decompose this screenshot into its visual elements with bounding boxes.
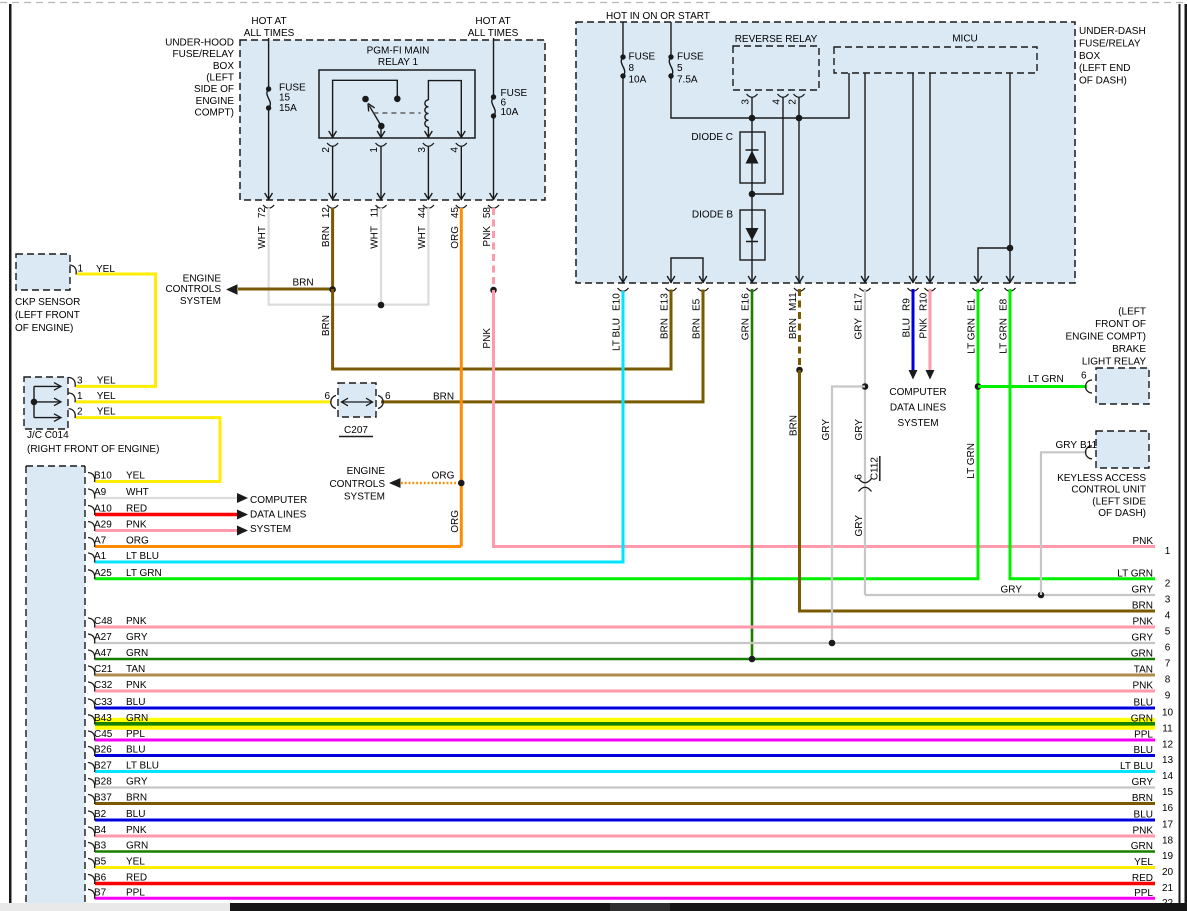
relay coil winding [425,100,429,127]
PGM-FI main relay 1 outline [319,70,475,138]
wire fuse 8 to box exit E10 [622,76,624,283]
reverse relay box [733,46,819,90]
relay switch arm [369,106,381,126]
svg-text:A7: A7 [94,536,107,547]
svg-text:PNK: PNK [1132,536,1153,547]
svg-text:DIODE B: DIODE B [692,210,733,221]
junction row 3 / keyless branch [1038,592,1045,599]
svg-text:17: 17 [1162,820,1174,831]
svg-text:YEL: YEL [96,264,115,275]
arrow to engine controls system (top) [226,284,238,295]
reverse relay pin 3 arc [747,94,758,97]
ECM pin B10 [88,473,95,483]
svg-text:72: 72 [257,207,268,219]
CKP sensor pin 1 arc [70,265,77,275]
svg-text:8: 8 [629,63,635,74]
svg-text:MICU: MICU [952,34,978,45]
svg-text:8: 8 [1165,675,1171,686]
arrow computer data lines A29 [237,526,248,536]
ECM pin A27 [88,634,95,644]
svg-text:GRN: GRN [126,648,148,659]
wire BLU R9 [912,289,915,371]
diode B box [740,210,765,260]
svg-text:C112: C112 [870,457,881,481]
svg-text:45: 45 [450,207,461,219]
svg-text:FUSE: FUSE [677,51,704,62]
wire row 12 PPL [95,739,1155,742]
svg-text:LT BLU: LT BLU [1120,761,1153,772]
svg-text:R9: R9 [902,298,913,311]
reverse relay pin 4 arc [778,94,789,97]
wire fuse 6 to box exit 58 [493,116,495,200]
svg-text:UNDER-DASH: UNDER-DASH [1079,26,1146,37]
ECM pin A9 [88,489,95,499]
relay actuation dashed link [373,112,420,114]
svg-text:PNK: PNK [1132,826,1153,837]
ECM pin C45 [88,731,95,741]
svg-text:DATA LINES: DATA LINES [250,510,307,521]
svg-text:4: 4 [1165,611,1171,622]
ECM pin B28 [88,779,95,789]
svg-text:1: 1 [369,147,380,153]
svg-text:2: 2 [321,147,332,153]
svg-text:PNK: PNK [919,318,930,339]
svg-text:RELAY 1: RELAY 1 [378,57,419,68]
C112 in-line connector [859,479,872,483]
svg-text:E16: E16 [741,293,752,311]
wire diode C to diode B [751,183,753,210]
ECM pin B4 [88,827,95,837]
svg-text:58: 58 [482,207,493,219]
svg-text:11: 11 [1162,723,1173,734]
svg-text:4: 4 [772,99,783,105]
svg-text:13: 13 [1162,755,1174,766]
relay fixed contact node [394,96,401,103]
svg-text:A9: A9 [94,487,107,498]
under-hood fuse/relay box [240,40,545,200]
svg-text:7.5A: 7.5A [677,75,698,86]
svg-text:BRN: BRN [433,392,454,403]
svg-text:(LEFT: (LEFT [1118,307,1146,318]
junction PNK 58 [490,287,497,294]
svg-text:LT GRN: LT GRN [966,443,977,479]
relay pin exit at x=428.4 [425,131,433,137]
wire PNK R10 [929,289,932,371]
wire YEL J/C C014 pin 2 to ECM B10 [76,418,220,482]
wire GRY E17 branch to row 6 [832,387,865,644]
arrow to engine controls system (ORG) [389,478,401,488]
wire ORG to engine controls arrow [401,482,461,484]
svg-text:COMPUTER: COMPUTER [250,495,307,506]
wire row 13 BLU [95,754,1155,757]
svg-text:REVERSE RELAY: REVERSE RELAY [735,34,818,45]
ECM pin C33 [88,699,95,709]
svg-text:ALL TIMES: ALL TIMES [244,28,295,39]
wire BRN 12 from exit [331,208,334,290]
svg-text:ORG: ORG [126,536,149,547]
fuse 8 10A [620,54,625,59]
svg-text:ENGINE: ENGINE [196,96,235,107]
svg-text:GRY: GRY [1132,585,1154,596]
wire MICU to box exit R9 [912,73,914,283]
svg-text:BLU: BLU [1134,810,1153,821]
svg-text:LT GRN: LT GRN [1117,568,1153,579]
svg-text:HOT AT: HOT AT [251,16,286,27]
ECM connector box right edge [84,466,86,903]
svg-text:GRN: GRN [1131,649,1153,660]
under-hood box exit at x=428.4 [425,193,433,199]
wire RED ECM A10 to computer data lines [95,513,237,516]
wire YEL J/C C014 pin 1 to C207 [76,400,331,403]
wire PNK 58 dashed segment [492,208,495,290]
under-dash box exit R9 [909,276,917,282]
ECM pin C48 [88,618,95,628]
svg-text:1: 1 [1165,546,1171,557]
svg-text:B6: B6 [94,873,107,884]
relay coil branch [428,81,461,138]
wire ORG to ECM A7 [95,545,461,548]
svg-text:TAN: TAN [1134,665,1153,676]
J/C C014 connector box [24,377,68,429]
ECM connector box top edge [26,465,85,467]
wire BRN M11 dashed segment [798,289,801,370]
svg-text:10A: 10A [501,107,519,118]
ECM pin A29 [88,522,95,532]
svg-text:C207: C207 [344,425,368,436]
C207 internal double arrow [342,401,373,403]
relay pin exit at x=381 [377,131,385,137]
under-hood box exit at x=268.6 [265,193,273,199]
svg-text:PNK: PNK [1132,681,1153,692]
ECM pin B5 [88,859,95,869]
svg-text:GRN: GRN [126,713,148,724]
svg-text:LT BLU: LT BLU [612,318,623,351]
junction E8/E1 branch [1007,245,1014,252]
svg-text:PNK: PNK [1132,617,1153,628]
svg-text:6: 6 [324,391,330,402]
ECM pin C32 [88,682,95,692]
wire fuse 5 to bus [671,73,849,118]
svg-text:C45: C45 [94,729,113,740]
ECM pin B37 [88,795,95,805]
wire GRN E16 to row 7 [751,289,754,659]
svg-text:SYSTEM: SYSTEM [897,418,938,429]
svg-text:FRONT OF: FRONT OF [1095,319,1146,330]
junction fuse5 bus / reverse relay pin 2 [796,115,803,122]
svg-text:12: 12 [1162,740,1174,751]
svg-text:B43: B43 [94,713,112,724]
junction ORG [458,480,465,487]
svg-text:ORG: ORG [432,471,455,482]
svg-text:PNK: PNK [126,616,147,627]
ECM pin B26 [88,747,95,757]
ECM pin B27 [88,763,95,773]
ECM pin B43 [88,715,95,725]
svg-text:10: 10 [1162,708,1174,719]
svg-text:ORG: ORG [450,226,461,249]
svg-text:LT GRN: LT GRN [126,568,162,579]
svg-text:GRY: GRY [1132,777,1154,788]
svg-text:B7: B7 [94,887,107,898]
bottom bar segment [610,903,670,911]
svg-text:A29: A29 [94,520,112,531]
under-dash box exit E10 [619,276,627,282]
fuse 15 15A [266,86,271,91]
svg-text:C48: C48 [94,616,113,627]
reverse relay pin 2 arc [794,94,805,97]
svg-text:GRY: GRY [126,632,148,643]
wire PNK 58 to row 1 [494,290,1156,547]
wire row 14 LT BLU [95,770,1155,773]
svg-text:20: 20 [1162,867,1174,878]
wire row 11 GRN [95,722,1155,726]
svg-text:9: 9 [1165,691,1171,702]
svg-text:BOX: BOX [213,61,234,72]
junction fuse5 bus / reverse relay pin 3 [749,115,756,122]
wire BRN 12 to E13 [333,289,671,369]
svg-text:LT GRN: LT GRN [1028,374,1064,385]
svg-text:A10: A10 [94,504,112,515]
wire YEL CKP sensor pin 1 to J/C C014 pin 3 [76,274,156,386]
svg-text:12: 12 [321,207,332,219]
J/C C014 internal junction [31,399,38,406]
ECM pin B7 [88,889,95,899]
svg-text:C33: C33 [94,697,113,708]
ECM pin B6 [88,875,95,885]
under-dash box exit E16 [748,276,756,282]
svg-text:YEL: YEL [97,391,116,402]
wire GRY E17 [864,289,866,595]
page right border inner [1179,4,1181,903]
svg-text:1: 1 [78,264,84,275]
brake light relay box [1096,368,1149,404]
svg-text:HOT IN ON OR START: HOT IN ON OR START [606,11,710,22]
wire reverse relay pin 3 to diode C [751,98,753,133]
under-dash fuse/relay box [576,22,1075,283]
svg-text:YEL: YEL [1134,857,1153,868]
svg-text:KEYLESS ACCESS: KEYLESS ACCESS [1057,473,1146,484]
arrow R10 to computer data lines system [926,370,935,380]
svg-text:GRY: GRY [854,515,865,537]
wire row 16 BRN [95,802,1155,805]
ECM connector box fill [26,466,85,903]
svg-text:PNK: PNK [126,680,147,691]
svg-text:LT BLU: LT BLU [126,761,159,772]
svg-text:RED: RED [126,873,147,884]
svg-text:PNK: PNK [126,520,147,531]
wire MICU to box exit R10 [929,73,931,283]
wire row 20 YEL [95,866,1155,869]
junction BRN 12 [329,286,336,293]
svg-text:E13: E13 [660,293,671,311]
wire fuse 15 to box exit 72 [268,108,270,200]
svg-text:GRY: GRY [854,419,865,441]
svg-text:15: 15 [279,93,291,104]
wire GRY keyless access B11 [1041,452,1087,595]
svg-text:GRY: GRY [126,777,148,788]
svg-text:B11: B11 [1080,440,1097,451]
svg-text:BRN: BRN [321,226,332,247]
svg-text:A1: A1 [94,551,107,562]
wire LT GRN to brake light relay pin 6 [978,385,1087,388]
fuse 5 7.5A [668,54,673,59]
wire MICU to box exit E8 [1009,73,1011,283]
svg-text:BRN: BRN [293,277,314,288]
svg-text:COMPT): COMPT) [195,108,234,119]
svg-text:(LEFT END: (LEFT END [1079,63,1131,74]
svg-text:6: 6 [385,391,391,402]
svg-text:B26: B26 [94,745,112,756]
svg-text:ENGINE COMPT): ENGINE COMPT) [1065,332,1146,343]
C207 left half-connector [331,396,336,409]
svg-text:ORG: ORG [450,510,461,533]
svg-text:14: 14 [1162,771,1174,782]
svg-text:PNK: PNK [482,226,493,247]
svg-text:DATA LINES: DATA LINES [890,403,947,414]
svg-text:(LEFT SIDE: (LEFT SIDE [1092,496,1146,507]
svg-text:BRN: BRN [788,318,799,339]
wire BRN M11 to row 4 [800,370,1156,611]
svg-text:WHT: WHT [126,487,149,498]
under-dash box exit E13 [667,276,675,282]
svg-text:CONTROL UNIT: CONTROL UNIT [1071,485,1146,496]
svg-text:6: 6 [854,474,865,480]
svg-text:TAN: TAN [126,664,145,675]
diode B symbol [746,228,759,241]
arrow R9 to computer data lines system [909,370,918,380]
svg-text:E1: E1 [967,298,978,311]
diode C wire through [751,132,753,183]
svg-text:B5: B5 [94,857,107,868]
svg-text:3: 3 [77,376,83,387]
svg-text:RED: RED [1132,873,1153,884]
svg-text:R10: R10 [919,292,930,311]
wire GRY E17 to row 3 [865,594,1155,596]
svg-text:YEL: YEL [97,406,116,417]
svg-text:LT BLU: LT BLU [126,551,159,562]
svg-text:YEL: YEL [126,857,145,868]
svg-text:15: 15 [1162,787,1174,798]
svg-text:B2: B2 [94,809,107,820]
wire row 10 BLU [95,707,1155,710]
diode C symbol [746,151,759,164]
svg-text:GRY: GRY [854,318,865,340]
relay switch feed from pin 2 [333,80,398,138]
svg-text:7: 7 [1165,659,1171,670]
wire row 15 GRY [95,786,1155,788]
diode C box [740,132,765,183]
J/C C014 pin arrow y=386.4 [34,385,60,387]
under-hood box exit at x=493.5 [490,193,498,199]
wire BRN to engine controls arrow [238,288,333,291]
wire row 5 PNK [95,626,1155,629]
svg-text:BRAKE: BRAKE [1112,344,1146,355]
svg-text:(RIGHT FRONT OF ENGINE): (RIGHT FRONT OF ENGINE) [27,444,159,455]
junction WHT bus [378,302,385,309]
wire row 18 PNK [95,835,1155,838]
svg-text:BRN: BRN [692,318,703,339]
brake light relay pin 6 arc [1086,380,1093,393]
ECM pin A10 [88,506,95,516]
svg-text:ENGINE: ENGINE [347,466,386,477]
svg-text:4: 4 [450,147,461,153]
wire row 8 TAN [95,674,1155,677]
svg-text:BLU: BLU [1134,698,1153,709]
J/C C014 internal bus [33,386,35,417]
wire reverse relay pin 4 [754,98,783,195]
svg-text:J/C C014: J/C C014 [27,430,69,441]
svg-text:SYSTEM: SYSTEM [250,524,291,535]
svg-text:BLU: BLU [902,318,913,337]
svg-text:C21: C21 [94,664,113,675]
wire row 9 PNK [95,690,1155,693]
svg-text:LT GRN: LT GRN [967,318,978,354]
wire row 21 RED [95,882,1155,885]
svg-text:GRN: GRN [126,841,148,852]
svg-text:BRN: BRN [1132,601,1153,612]
MICU box [834,47,1037,73]
relay pin exit at x=332.6 [329,131,337,137]
svg-text:DIODE C: DIODE C [691,132,733,143]
svg-text:19: 19 [1162,851,1174,862]
junction row 6 / E17 branch [829,640,836,647]
svg-text:BLU: BLU [126,745,145,756]
under-dash box exit E5 [699,276,707,282]
wire LT BLU E10 to ECM A1 [95,291,623,562]
svg-text:PPL: PPL [126,887,145,898]
svg-text:B3: B3 [94,841,107,852]
svg-text:GRN: GRN [1131,841,1153,852]
svg-text:PPL: PPL [1134,888,1153,899]
svg-text:COMPUTER: COMPUTER [889,387,946,398]
under-hood box exit at x=332.6 [329,193,337,199]
wire row 19 GRN [95,850,1155,853]
ECM connector box left edge [25,466,27,903]
wire MICU to box exit E17 [864,73,866,283]
svg-text:SYSTEM: SYSTEM [180,296,221,307]
wire LT GRN E8 to row 2 [1010,289,1155,579]
svg-text:ENGINE: ENGINE [183,273,222,284]
svg-text:ALL TIMES: ALL TIMES [468,28,519,39]
wire hot-in-on-or-start to fuse 5 [670,22,672,57]
wire reverse relay pin 2 to box exit M11 [798,98,800,284]
wire row 22 PPL [95,897,1155,900]
svg-text:FUSE/RELAY: FUSE/RELAY [173,49,235,60]
svg-text:OF ENGINE): OF ENGINE) [15,323,73,334]
svg-text:GRN: GRN [1131,713,1153,724]
svg-text:BRN: BRN [1132,793,1153,804]
CKP sensor connector box [16,254,70,290]
svg-text:OF DASH): OF DASH) [1098,508,1146,519]
keyless access control unit box [1096,431,1149,468]
svg-text:C32: C32 [94,680,113,691]
svg-text:LIGHT RELAY: LIGHT RELAY [1082,356,1146,367]
svg-text:E5: E5 [692,298,703,311]
svg-text:6: 6 [1081,371,1087,382]
svg-text:GRY: GRY [1056,440,1078,451]
page top dashed border [0,2,1187,4]
wire row 6 GRY [95,642,1155,644]
J/C C014 pin arrow y=417.6 [34,417,60,419]
wire E13/E5 loop [671,258,703,283]
svg-text:PNK: PNK [126,825,147,836]
svg-text:GRN: GRN [741,318,752,340]
ECM pin B3 [88,843,95,853]
svg-text:HOT AT: HOT AT [475,16,510,27]
svg-text:PPL: PPL [1134,730,1153,741]
under-dash box exit E17 [861,276,869,282]
svg-text:CONTROLS: CONTROLS [329,479,385,490]
